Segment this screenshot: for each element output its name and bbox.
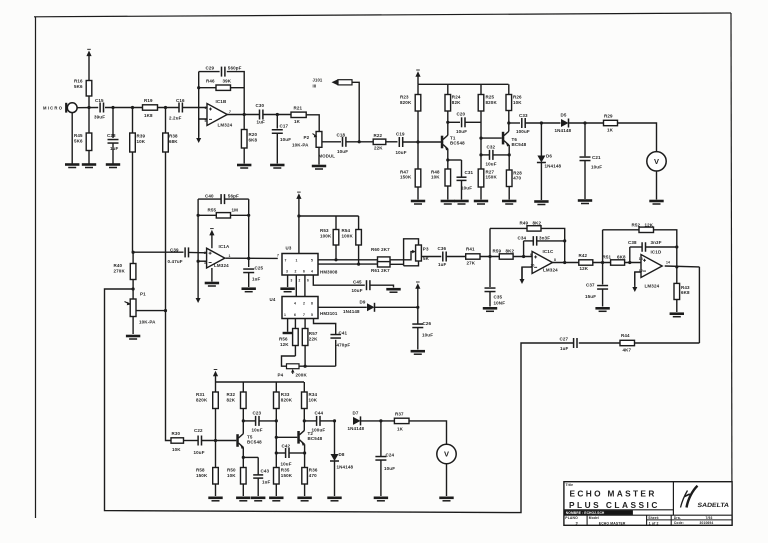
diode D9 [367, 303, 375, 311]
title block divider logo [672, 482, 674, 516]
svg-text:D8: D8 [339, 452, 345, 457]
wire C31 row [448, 159, 462, 161]
svg-text:10uF: 10uF [591, 165, 602, 170]
svg-text:R32: R32 [227, 392, 236, 397]
svg-text:MODUL: MODUL [319, 154, 336, 159]
transistor T2 [297, 431, 300, 444]
svg-text:C41: C41 [339, 330, 348, 335]
wire U3 pin3 stub [287, 275, 289, 287]
resistor R59 [499, 254, 513, 259]
wire R37 to V2 [409, 421, 447, 444]
wire P1 gnd [132, 317, 134, 335]
svg-text:3010694: 3010694 [700, 521, 714, 525]
node R55 right [247, 214, 250, 217]
capacitor C43 [253, 474, 263, 476]
capacitor C15 [99, 103, 101, 113]
svg-text:1uF: 1uF [560, 346, 569, 351]
node C42 left [275, 451, 278, 454]
ground U4 pin1 [283, 332, 293, 334]
svg-text:P4: P4 [278, 373, 284, 378]
wire C17 gnd [276, 134, 278, 164]
svg-text:22K: 22K [374, 146, 383, 151]
svg-text:10K: 10K [513, 100, 522, 105]
node C32 left [479, 153, 482, 156]
svg-text:LM324: LM324 [214, 263, 229, 268]
node C44 tap [303, 419, 306, 422]
resistor R54 [358, 216, 360, 230]
svg-text:100K: 100K [342, 233, 354, 238]
wire C23 left [243, 420, 255, 422]
node C21 [583, 121, 586, 124]
resistor R24 [447, 84, 449, 94]
resistor R45 [88, 108, 90, 134]
svg-text:C38: C38 [628, 240, 637, 245]
wire P2 to C18 [322, 141, 341, 143]
svg-text:C17: C17 [280, 124, 289, 129]
node IC1D in [601, 261, 604, 264]
svg-text:C27: C27 [560, 336, 569, 341]
wire C29 right [227, 72, 244, 115]
wire C40 row left [198, 198, 221, 200]
capacitor C28 [108, 139, 119, 141]
wire C21 gnd [584, 161, 586, 199]
svg-text:IC1A: IC1A [219, 244, 230, 249]
ground R45 [82, 163, 96, 166]
svg-text:C39: C39 [170, 248, 179, 253]
svg-text:R48: R48 [431, 169, 440, 174]
wire mic stem [71, 112, 73, 163]
wire long vert to R30 [166, 311, 172, 441]
wire D8 stem [334, 421, 336, 454]
node C23 right [275, 419, 278, 422]
wire IC1D inv input [635, 272, 641, 285]
wire IC1C output [551, 262, 579, 264]
svg-text:Dra.: Dra. [674, 516, 681, 520]
wire C19 to T1 base [403, 141, 441, 143]
capacitor C27 [573, 338, 575, 348]
wire C33 right [526, 122, 561, 124]
svg-text:BC548: BC548 [247, 439, 262, 444]
svg-text:R38: R38 [169, 134, 178, 139]
wire T1 collector [447, 111, 449, 135]
node C24 [379, 419, 382, 422]
svg-text:10K: 10K [227, 473, 236, 478]
down arrow IC1B [198, 119, 200, 139]
svg-text:R30: R30 [172, 431, 181, 436]
svg-text:1N4148: 1N4148 [348, 426, 365, 431]
svg-text:39K: 39K [223, 79, 232, 84]
wire IC1A inv input [198, 260, 207, 262]
svg-text:HM3101: HM3101 [320, 311, 338, 316]
svg-text:10uF: 10uF [281, 461, 292, 466]
svg-text:10uF: 10uF [486, 161, 497, 166]
svg-text:PLANO: PLANO [565, 516, 578, 520]
node C26 [416, 306, 419, 309]
diode D5 [561, 119, 569, 127]
node C34 right [563, 239, 566, 242]
resistor R22 [373, 139, 386, 144]
wire C37 gnd [602, 289, 604, 307]
wire rail bottom stage [216, 381, 305, 383]
svg-text:150K: 150K [196, 473, 208, 478]
wire C34 right [537, 240, 565, 242]
svg-text:4: 4 [311, 270, 313, 274]
svg-text:470: 470 [309, 473, 317, 478]
wire T2 collector [303, 409, 305, 431]
wire C39 row [133, 251, 183, 253]
wire C33 left [509, 122, 520, 124]
svg-text:1K8: 1K8 [144, 113, 153, 118]
svg-text:6: 6 [303, 270, 305, 274]
resistor R47 [417, 142, 419, 169]
wire R52 left vert [602, 230, 604, 263]
down arrow IC1C [521, 267, 523, 280]
node IC1C in [488, 255, 491, 258]
svg-text:NOMBRE : ECHO2.SCH: NOMBRE : ECHO2.SCH [566, 511, 605, 515]
capacitor C24 [375, 456, 386, 458]
node R38 top [164, 106, 167, 109]
svg-text:10uF: 10uF [337, 149, 348, 154]
wire feedback loop [105, 289, 574, 513]
wire C17 stem [276, 115, 278, 129]
svg-text:C23: C23 [253, 411, 262, 416]
node IC1A out [247, 257, 250, 260]
ground C37 [595, 307, 609, 310]
resistor R57 [304, 319, 306, 329]
wire rail T1 stage [418, 83, 509, 85]
wire C20 left [448, 121, 460, 123]
ground D6 [534, 200, 548, 203]
wire R56 to P4 [282, 356, 296, 366]
wire C18 to R22 [346, 141, 373, 143]
svg-text:10uF: 10uF [461, 185, 472, 190]
wire C32 right lead [493, 154, 509, 156]
svg-text:1 of 2: 1 of 2 [649, 522, 659, 526]
svg-text:12K: 12K [280, 342, 289, 347]
trimmer P1 [130, 299, 136, 317]
op-amp IC1D [641, 255, 662, 278]
svg-text:7: 7 [303, 313, 305, 317]
resistor R25 [480, 84, 482, 94]
svg-text:J101: J101 [313, 77, 323, 82]
wire R40 to P1 [132, 289, 134, 299]
svg-text:1K: 1K [607, 128, 614, 133]
wire R30 to C22 [184, 440, 198, 442]
node T1 base [416, 140, 419, 143]
svg-text:R59: R59 [493, 248, 502, 253]
wire C42 left lead [276, 452, 285, 454]
wire row mic [105, 107, 143, 109]
svg-text:1K: 1K [294, 119, 301, 124]
svg-text:13: 13 [639, 257, 643, 261]
node C32 right [508, 153, 511, 156]
op-amp IC1B [207, 104, 227, 126]
capacitor C33 [521, 118, 523, 128]
svg-text:R39: R39 [137, 134, 146, 139]
svg-text:LM324: LM324 [218, 123, 233, 128]
svg-text:R43: R43 [681, 285, 690, 290]
wire feedback to R44 [635, 342, 700, 344]
svg-text:HM3008: HM3008 [320, 270, 338, 275]
power arrow +V IC1A [209, 230, 214, 236]
svg-text:10K: 10K [172, 447, 181, 452]
wire T5 collector [242, 409, 244, 434]
wire C43 stem [257, 457, 259, 475]
wire P3 loop [404, 239, 419, 266]
svg-text:V: V [444, 450, 449, 459]
wire C25 gnd [248, 273, 250, 287]
wire P4 to row [299, 365, 336, 367]
svg-text:8: 8 [554, 258, 556, 262]
svg-text:Sheet:: Sheet: [648, 516, 659, 520]
svg-text:3: 3 [286, 270, 288, 274]
node C15-C28 [111, 106, 114, 109]
resistor R35 [275, 484, 277, 496]
node P1 top [132, 287, 135, 290]
wire C43 gnd [257, 478, 259, 496]
resistor R40 [132, 252, 134, 263]
capacitor C25 [243, 268, 254, 270]
wire R61 to P3 loop [390, 263, 404, 265]
svg-text:C44: C44 [315, 411, 324, 416]
resistor R55 [216, 213, 230, 218]
frame right border [731, 13, 732, 525]
wire T6 emitter [508, 145, 510, 170]
nombre black band [564, 510, 633, 515]
frame top border [34, 13, 731, 17]
resistor R50 [242, 484, 244, 496]
wire C38 left vert [629, 247, 631, 263]
svg-text:6: 6 [205, 106, 207, 110]
resistor R29 [604, 120, 618, 125]
svg-text:4: 4 [294, 302, 296, 306]
wire T6 collector [508, 111, 510, 132]
ground IC1A [205, 282, 219, 285]
wire U3-U4 pin a [295, 275, 297, 297]
svg-text:PLUS CLASSIC: PLUS CLASSIC [569, 500, 660, 510]
ground C45 [386, 288, 400, 291]
node R57 bottom [304, 365, 307, 368]
node R54 bottom [357, 263, 360, 266]
resistor R44 [620, 340, 635, 345]
ground C26 [411, 350, 425, 353]
IC U4 HM3101 [282, 297, 318, 319]
capacitor C22 [197, 436, 199, 446]
title block divider plano-model [586, 515, 588, 525]
ground R58 [208, 496, 222, 499]
wire U3 out upper row [318, 259, 378, 261]
wire IC1D output [665, 265, 700, 268]
wire IC1B output [227, 114, 260, 116]
svg-text:ECHO MASTER: ECHO MASTER [599, 522, 626, 526]
wire IC1B inv input [199, 119, 207, 137]
wire D5 to C21 [569, 122, 604, 124]
wire R52 row left [603, 229, 639, 231]
svg-text:V: V [654, 157, 659, 166]
capacitor C20 [461, 117, 463, 127]
wire D6 gnd [540, 163, 542, 201]
svg-text:R31: R31 [196, 392, 205, 397]
capacitor C42 [285, 448, 287, 458]
svg-text:R55: R55 [208, 207, 217, 212]
capacitor C31 [457, 176, 467, 178]
capacitor C35 [485, 287, 496, 289]
svg-text:R26: R26 [513, 95, 522, 100]
wire R21 to P2 [306, 115, 319, 132]
svg-text:820K: 820K [400, 100, 412, 105]
wire C35 gnd [489, 292, 491, 307]
svg-text:C30: C30 [256, 103, 265, 108]
wire C44 right [320, 420, 334, 422]
wire C26 stem [417, 307, 419, 324]
wire R59 to IC1C [513, 256, 532, 258]
wire T6 base [481, 137, 502, 139]
capacitor C32 [489, 150, 491, 160]
wire R46 left [199, 87, 216, 89]
node D6 [540, 121, 543, 124]
svg-text:C33: C33 [519, 113, 528, 118]
wire D9 to C26 [375, 306, 418, 308]
svg-text:7/93: 7/93 [706, 516, 713, 520]
svg-text:R54: R54 [342, 228, 351, 233]
node R53 bottom [334, 258, 337, 261]
svg-text:10K: 10K [137, 139, 146, 144]
svg-text:D6: D6 [546, 154, 552, 159]
svg-text:1uF: 1uF [262, 479, 271, 484]
svg-text:R37: R37 [395, 412, 404, 417]
svg-text:2: 2 [295, 270, 297, 274]
P3 wiper arrowhead [412, 250, 415, 254]
svg-text:D7: D7 [353, 410, 359, 415]
svg-text:10uF: 10uF [280, 137, 291, 142]
svg-text:10K-PA: 10K-PA [292, 143, 309, 148]
node C17 [276, 113, 279, 116]
power arrow +V T1 stage [415, 71, 420, 77]
svg-text:U4: U4 [270, 297, 276, 302]
svg-text:C24: C24 [386, 452, 395, 457]
wire C44 left [304, 420, 316, 422]
wire C29 row [199, 71, 220, 73]
svg-text:III: III [313, 84, 317, 89]
wire U4 to D9 [318, 306, 367, 308]
svg-text:10uF: 10uF [384, 466, 395, 471]
svg-text:P2: P2 [304, 135, 310, 140]
svg-text:C43: C43 [261, 468, 270, 473]
svg-text:1uF: 1uF [438, 262, 447, 267]
svg-text:C18: C18 [337, 132, 346, 137]
svg-text:0.47uF: 0.47uF [168, 259, 183, 264]
wire C39 to IC1A [189, 251, 207, 253]
wire C31 stems [461, 160, 463, 177]
svg-text:12K: 12K [580, 266, 589, 271]
capacitor C21 [580, 156, 591, 158]
node R55 left [197, 214, 200, 217]
wire D8 gnd [334, 461, 336, 496]
svg-text:C15: C15 [95, 98, 104, 103]
svg-text:C19: C19 [396, 131, 405, 136]
wire C38 row [630, 246, 642, 248]
resistor R42 [579, 260, 593, 265]
svg-text:C25: C25 [255, 265, 264, 270]
node J101 [358, 140, 361, 143]
svg-text:C34: C34 [518, 235, 527, 240]
svg-text:10NF: 10NF [494, 300, 506, 305]
svg-text:10K: 10K [431, 175, 440, 180]
node T2 base [275, 436, 278, 439]
resistor R37 [394, 418, 409, 423]
svg-text:1uF: 1uF [257, 120, 266, 125]
ground R48 [441, 200, 455, 203]
resistor R38 [165, 108, 167, 134]
diode D6 [537, 156, 545, 163]
transistor T1 [441, 136, 444, 149]
resistor R56 [294, 319, 296, 329]
svg-text:150K: 150K [281, 473, 293, 478]
svg-text:82K: 82K [452, 100, 461, 105]
wire R46 right [231, 87, 245, 89]
resistor R32 [242, 382, 244, 392]
node T5 base [214, 439, 217, 442]
resistor R53 [335, 216, 337, 230]
svg-text:7: 7 [285, 259, 287, 263]
node C38 right [675, 245, 678, 248]
node R39 top [131, 106, 134, 109]
resistor R48 [447, 186, 449, 200]
wire feedback right vert [698, 267, 700, 343]
svg-text:56pF: 56pF [228, 193, 239, 198]
wire C37 stem [602, 263, 604, 285]
svg-text:3n3F: 3n3F [651, 240, 662, 245]
svg-text:LM324: LM324 [543, 267, 558, 272]
wire C16 to IC1B [183, 107, 208, 109]
svg-text:150K: 150K [400, 175, 412, 180]
svg-text:IC1B: IC1B [216, 99, 227, 104]
svg-text:R29: R29 [604, 114, 613, 119]
wire C34 row [524, 240, 534, 242]
resistor R31 [215, 382, 217, 392]
svg-text:68K: 68K [169, 139, 178, 144]
ground C17 [270, 164, 284, 167]
capacitor C45 [366, 280, 368, 290]
wire C34 left vert [523, 241, 525, 257]
node C34 left [522, 255, 525, 258]
wire C24 gnd [380, 460, 382, 496]
svg-text:R46: R46 [206, 79, 215, 84]
node P1 wiper [164, 309, 167, 312]
power arrow +V C26 [415, 283, 420, 289]
svg-text:R40: R40 [114, 263, 123, 268]
svg-text:MICRO: MICRO [43, 105, 63, 110]
svg-text:LM324: LM324 [645, 284, 660, 289]
P1 wiper arrow [125, 302, 130, 305]
wire C28 to gnd [112, 144, 114, 164]
node fb out [243, 113, 246, 116]
ground P2 [312, 165, 326, 168]
svg-text:R61 2K7: R61 2K7 [371, 268, 390, 273]
ground V2 [439, 496, 453, 499]
trimmer P4 [287, 364, 300, 369]
wire R19 to C16 [158, 107, 180, 109]
wire rail R53 R54 [299, 215, 359, 217]
capacitor C29 [221, 67, 223, 77]
svg-text:R16: R16 [74, 79, 83, 84]
title block mid line right [647, 519, 733, 521]
resistor R51 [611, 260, 625, 265]
svg-text:39uF: 39uF [94, 114, 105, 119]
svg-text:4K7: 4K7 [623, 347, 632, 352]
svg-text:10K: 10K [309, 398, 318, 403]
resistor R33 [275, 382, 277, 392]
